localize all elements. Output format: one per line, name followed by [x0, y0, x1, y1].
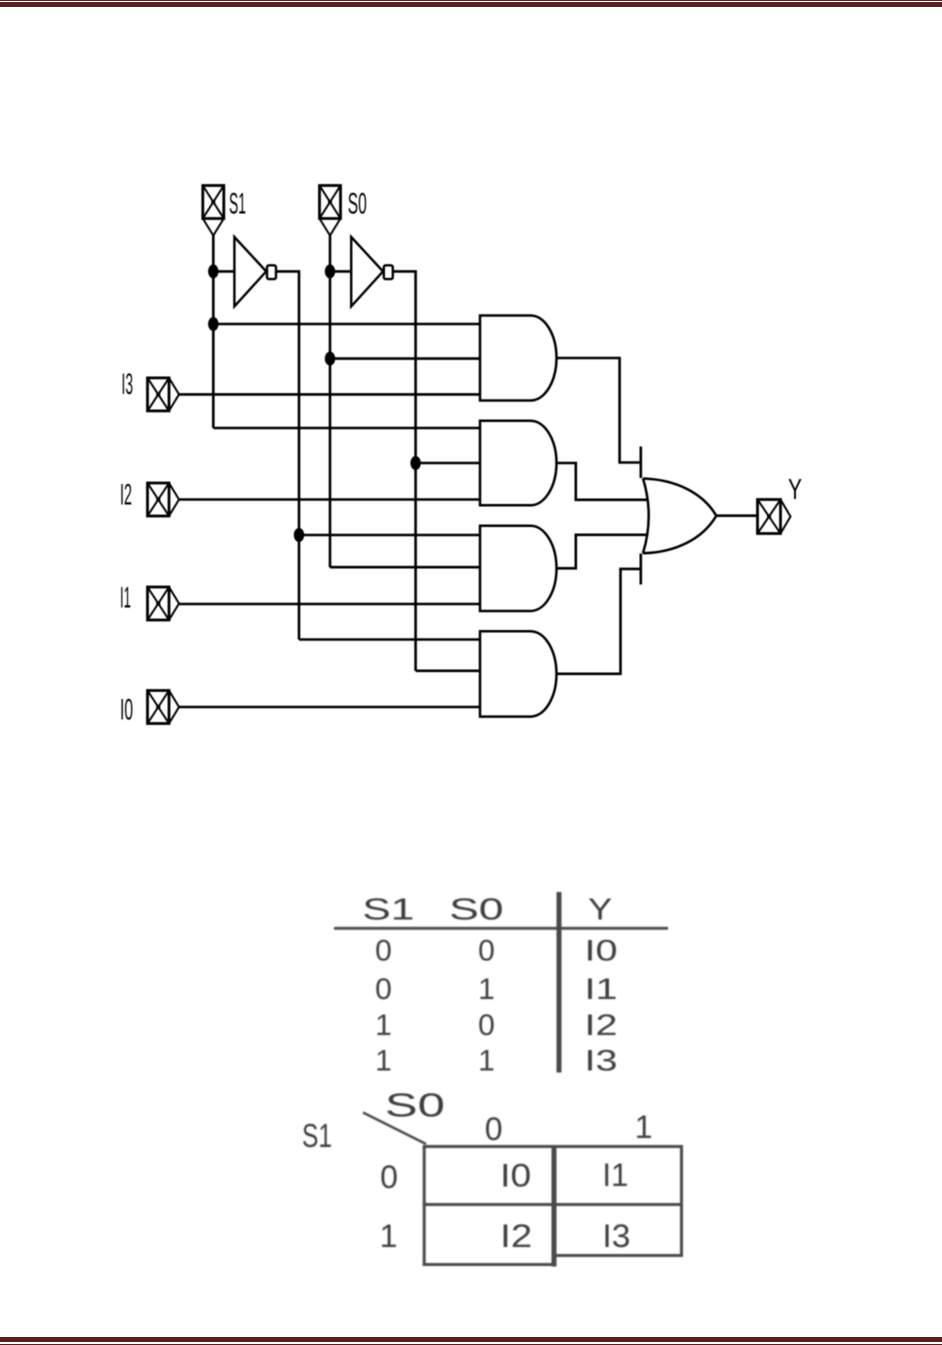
- svg-text:S1: S1: [302, 1117, 332, 1154]
- svg-text:0: 0: [478, 1009, 495, 1042]
- svg-text:0: 0: [485, 1111, 503, 1147]
- svg-text:I2: I2: [500, 1218, 532, 1254]
- svg-text:1: 1: [478, 973, 495, 1006]
- svg-text:Y: Y: [588, 892, 612, 927]
- svg-text:I2: I2: [120, 479, 132, 512]
- svg-text:I0: I0: [120, 694, 133, 727]
- svg-text:S0: S0: [385, 1087, 445, 1124]
- svg-text:I1: I1: [120, 582, 131, 615]
- svg-text:1: 1: [380, 1218, 398, 1254]
- svg-text:1: 1: [375, 1009, 392, 1042]
- svg-text:I2: I2: [585, 1009, 618, 1042]
- svg-text:0: 0: [375, 935, 392, 968]
- svg-text:Y: Y: [788, 474, 802, 506]
- svg-text:0: 0: [478, 935, 495, 968]
- svg-text:S1: S1: [229, 188, 246, 221]
- svg-text:I3: I3: [122, 368, 134, 401]
- svg-text:0: 0: [380, 1159, 398, 1195]
- svg-text:0: 0: [375, 973, 392, 1006]
- svg-text:I1: I1: [602, 1157, 628, 1193]
- svg-text:1: 1: [375, 1045, 392, 1078]
- svg-text:I0: I0: [500, 1158, 531, 1194]
- svg-text:I3: I3: [602, 1218, 630, 1254]
- svg-text:S0: S0: [449, 892, 504, 927]
- svg-text:I1: I1: [585, 973, 618, 1006]
- svg-text:I3: I3: [585, 1045, 618, 1078]
- svg-text:I0: I0: [585, 935, 618, 968]
- svg-text:1: 1: [478, 1045, 495, 1078]
- svg-text:1: 1: [635, 1109, 653, 1145]
- svg-text:S0: S0: [348, 188, 367, 221]
- svg-text:S1: S1: [362, 892, 414, 927]
